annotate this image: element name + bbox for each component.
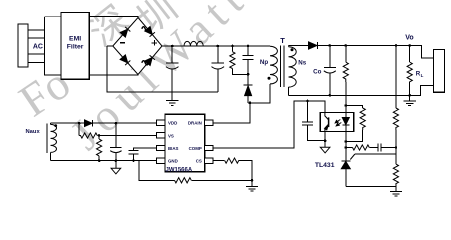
svg-text:JW1566A: JW1566A bbox=[166, 168, 193, 174]
capacitor Co bbox=[324, 46, 336, 96]
capacitor C2 bbox=[212, 46, 225, 92]
svg-text:Co: Co bbox=[313, 69, 321, 76]
node dot emitter bbox=[324, 139, 327, 142]
wire aux ground rail bbox=[51, 160, 157, 162]
svg-text:AC: AC bbox=[33, 43, 43, 50]
svg-text:VDD: VDD bbox=[168, 121, 177, 126]
diode D-out bbox=[309, 42, 318, 49]
phase dot Naux bbox=[54, 124, 57, 127]
resistor RL bbox=[407, 46, 412, 96]
capacitor C-vdd bbox=[110, 123, 121, 168]
node dot comp-cap bbox=[306, 100, 309, 103]
ground triangle G-opto bbox=[320, 147, 330, 153]
pin DRAIN bbox=[205, 120, 213, 125]
wire opto LED cathode to TL431 bbox=[345, 132, 347, 161]
capacitor C-snubber bbox=[243, 46, 254, 85]
transformer T primary Np bbox=[270, 46, 277, 84]
node dot cathode-comp bbox=[345, 146, 348, 149]
compensation network R-C bbox=[346, 144, 396, 152]
ground triangle G-vdd bbox=[111, 168, 121, 174]
svg-text:TL431: TL431 bbox=[315, 162, 335, 169]
wire BIAS bbox=[134, 148, 157, 151]
bridge diode D-TR bbox=[145, 26, 155, 36]
AC plug body bbox=[45, 17, 61, 75]
svg-text:Naux: Naux bbox=[26, 129, 41, 135]
inductor L1 bbox=[184, 41, 203, 46]
node dot rvs-rail bbox=[98, 159, 101, 162]
IC U1 JW1566A box bbox=[165, 114, 205, 172]
phase dot Ns bbox=[291, 48, 294, 51]
optocoupler phototransistor bbox=[325, 113, 329, 132]
resistor R2 parallel bbox=[346, 108, 366, 142]
pin VS bbox=[157, 133, 165, 138]
node dot rail-C1 bbox=[171, 45, 174, 48]
wire aux top bbox=[51, 122, 85, 124]
pin VDD bbox=[157, 120, 165, 125]
resistor R-snubber bbox=[230, 46, 248, 74]
output connector bar bbox=[434, 50, 445, 93]
wire Ns top to diode bbox=[289, 45, 309, 47]
ground G3 bbox=[246, 180, 258, 191]
AC plug bottom prong bbox=[28, 54, 44, 63]
svg-text:VS: VS bbox=[168, 133, 174, 138]
pin CS bbox=[205, 158, 213, 163]
resistor R-cs-sense bbox=[175, 178, 192, 183]
bridge mark plus bbox=[152, 40, 158, 46]
svg-text:EMI: EMI bbox=[69, 36, 81, 43]
node dot ref-comp bbox=[395, 146, 398, 149]
svg-text:DRAIN: DRAIN bbox=[188, 121, 202, 126]
optocoupler light arrows bbox=[335, 120, 341, 126]
svg-text:Ns: Ns bbox=[298, 60, 306, 67]
AC plug top prong bbox=[28, 30, 44, 38]
resistor R-opto-bias bbox=[343, 46, 348, 113]
pin BIAS bbox=[157, 145, 165, 150]
wire bridge minus stub bbox=[107, 45, 113, 47]
wire anode to R2 bbox=[346, 106, 363, 109]
node dot vs-div bbox=[98, 134, 101, 137]
bridge mark minus bbox=[120, 42, 125, 44]
ground G4 bbox=[390, 191, 402, 196]
transformer T secondary Ns bbox=[289, 46, 297, 96]
node dot opto-anode bbox=[345, 104, 348, 107]
wire EMI to bridge bottom bbox=[89, 74, 138, 76]
bridge diode D-BL bbox=[120, 55, 130, 65]
node dot drain-junction bbox=[249, 102, 252, 105]
node dot cathode-R2 bbox=[345, 140, 348, 143]
wire DC+ rail bbox=[162, 45, 270, 47]
bridge mark ~ top bbox=[142, 27, 149, 31]
pin COMP bbox=[205, 145, 213, 150]
node dot rail-Csn bbox=[247, 45, 250, 48]
resistor R-vs-upper bbox=[79, 123, 157, 138]
wire EMI to bridge top bbox=[89, 17, 138, 19]
svg-text:Filter: Filter bbox=[67, 44, 84, 51]
wire sense to ground bbox=[191, 179, 252, 181]
watermark bbox=[10, 0, 258, 159]
transformer core bbox=[281, 45, 284, 87]
node dot rail-Rsn bbox=[231, 45, 234, 48]
diode D-vdd bbox=[85, 120, 157, 127]
bridge diode D-TL bbox=[120, 27, 130, 37]
node dot Vo-RL bbox=[408, 44, 411, 47]
node dot cs-gnd bbox=[251, 179, 254, 182]
wire gnd sense bbox=[139, 161, 175, 181]
svg-text:COMP: COMP bbox=[189, 146, 202, 151]
svg-text:BIAS: BIAS bbox=[168, 146, 179, 151]
wire COMP to opto collector bbox=[213, 101, 325, 148]
node dot Vo-Co bbox=[329, 44, 332, 47]
optocoupler LED bbox=[342, 113, 349, 132]
resistor R-div-lower bbox=[393, 164, 398, 191]
capacitor C1 bulk bbox=[166, 46, 179, 92]
wire bridge minus to bottom rail bbox=[107, 46, 218, 92]
bridge rectifier BD1 diamond bbox=[113, 18, 162, 75]
resistor R-div-upper bbox=[393, 46, 398, 165]
node dot cvdd-rail bbox=[115, 159, 118, 162]
svg-text:L: L bbox=[421, 73, 424, 78]
TL431 U3 bbox=[341, 154, 396, 187]
resistor R-cs bbox=[225, 158, 239, 163]
node dot 0V-RL bbox=[408, 94, 411, 97]
svg-text:GND: GND bbox=[168, 159, 178, 164]
node dot 0V-Co bbox=[329, 94, 332, 97]
diode D-snubber bbox=[244, 85, 253, 103]
wire secondary 0V rail bbox=[289, 86, 434, 96]
wire CS to ground bbox=[239, 161, 252, 181]
AC plug bar bbox=[18, 24, 28, 67]
aux winding Naux bbox=[47, 123, 57, 160]
wire TL431 anode bbox=[346, 186, 396, 188]
EMI filter box U-EMI bbox=[61, 12, 89, 79]
wire DRAIN to switch node bbox=[213, 103, 250, 123]
wire Vo rail bbox=[317, 46, 433, 58]
node dot rail-C2 bbox=[217, 45, 220, 48]
wire CS pin bbox=[213, 160, 225, 162]
bridge diode D-BR bbox=[145, 55, 155, 65]
phase dot Np bbox=[268, 77, 271, 80]
node dot vdd-cap bbox=[115, 122, 118, 125]
ground G2 bbox=[404, 95, 416, 105]
svg-text:Vo: Vo bbox=[405, 34, 413, 41]
bridge mark ~ bottom bbox=[142, 61, 149, 65]
svg-text:CS: CS bbox=[196, 159, 202, 164]
optocoupler U2 box bbox=[320, 113, 354, 132]
svg-text:Np: Np bbox=[260, 59, 268, 66]
wire switch node bbox=[248, 84, 270, 103]
node dot Vo-Rdiv bbox=[395, 44, 398, 47]
svg-text:T: T bbox=[280, 36, 285, 45]
resistor R-vs-lower bbox=[97, 136, 102, 161]
wire opto emitter bbox=[324, 132, 326, 148]
node dot aux-vs bbox=[78, 122, 81, 125]
capacitor C-comp bbox=[302, 101, 325, 141]
ground primary G1 bbox=[166, 92, 178, 106]
node dot snubber-RC bbox=[247, 73, 250, 76]
node dot cbias-rail bbox=[132, 159, 135, 162]
capacitor C-bias bbox=[129, 151, 139, 161]
node dot Vo-Ropto bbox=[345, 44, 348, 47]
pin GND bbox=[157, 158, 165, 163]
